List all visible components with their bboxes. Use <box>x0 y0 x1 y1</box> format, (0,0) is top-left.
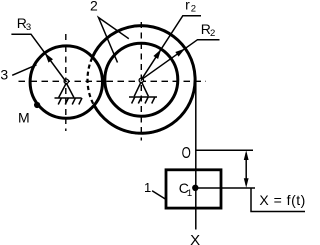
svg-text:3: 3 <box>26 22 31 33</box>
svg-text:2: 2 <box>191 4 196 15</box>
svg-text:X = f(t): X = f(t) <box>259 192 305 208</box>
svg-text:M: M <box>18 110 30 126</box>
svg-text:2: 2 <box>210 28 215 39</box>
svg-text:1: 1 <box>144 180 151 195</box>
svg-text:r: r <box>185 0 190 12</box>
svg-text:2: 2 <box>90 0 98 13</box>
svg-text:O: O <box>182 145 191 162</box>
svg-text:3: 3 <box>0 66 8 82</box>
svg-text:1: 1 <box>187 188 192 199</box>
svg-text:X: X <box>190 232 200 245</box>
